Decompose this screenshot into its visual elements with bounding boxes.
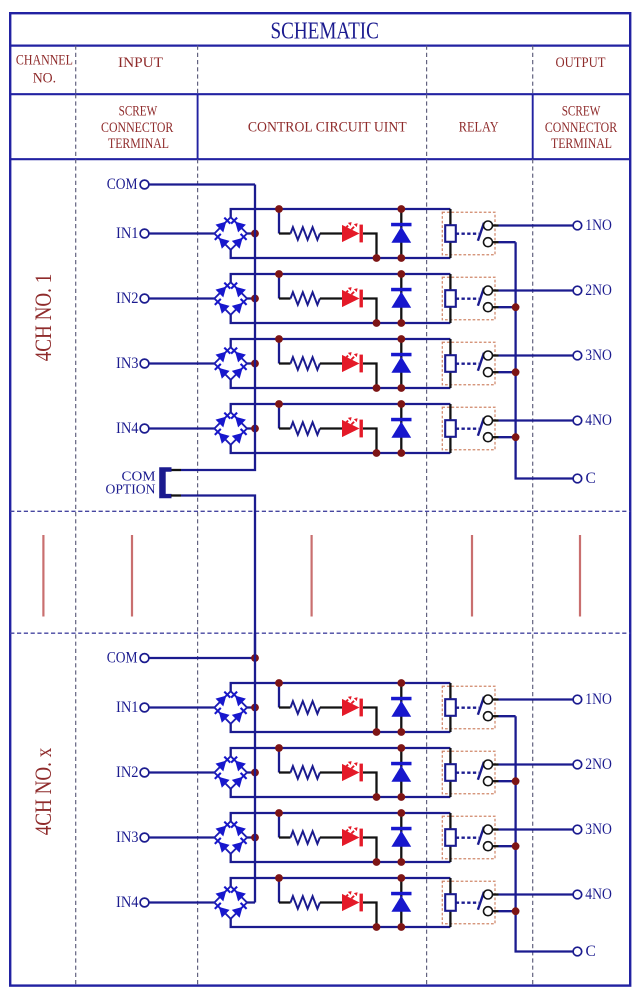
svg-text:3NO: 3NO [585, 821, 612, 838]
input terminal IN3 block 2 [116, 829, 149, 846]
bridge rectifier IN3 block 2 [214, 821, 247, 854]
junction bus/IN2 block 1 [251, 295, 259, 303]
header CHANNEL NO. [16, 53, 73, 87]
svg-text:4NO: 4NO [585, 886, 612, 903]
dashed column lines [76, 46, 533, 986]
continuation marks [43, 535, 580, 617]
svg-text:IN1: IN1 [116, 699, 139, 716]
wire NC contact to C bus IN3 block 2 [493, 845, 499, 847]
bridge rectifier IN2 block 1 [214, 282, 247, 315]
wire resistor branch drop IN3 block 2 [278, 813, 280, 838]
node 3NO (block 1) [573, 347, 612, 364]
wire COM bus (block 1) [181, 185, 255, 471]
input terminal IN1 block 2 [116, 699, 149, 716]
junction LED return/bottom rail IN4 block 1 [373, 449, 381, 457]
wire to resistor IN3 block 1 [279, 362, 291, 364]
wire LED to bottom rail IN3 block 2 [363, 838, 377, 863]
junction bus/IN1 block 2 [251, 704, 259, 712]
wire NO contact to output IN4 block 1 [493, 419, 499, 421]
junction LED return/bottom rail IN2 block 2 [373, 793, 381, 801]
flyback diode IN4 block 1 [391, 418, 411, 438]
wire bridge DC+ riser and top rail IN4 block 1 [231, 404, 451, 412]
flyback diode IN1 block 1 [391, 223, 411, 243]
svg-text:TERMINAL: TERMINAL [551, 136, 612, 152]
wire diode branch IN1 block 1 [400, 209, 402, 258]
junction LED return/bottom rail IN4 block 2 [373, 923, 381, 931]
wire resistor to LED IN4 block 1 [320, 427, 342, 429]
svg-text:2NO: 2NO [585, 282, 612, 299]
junction LED return/bottom rail IN1 block 2 [373, 728, 381, 736]
svg-text:IN4: IN4 [116, 894, 139, 911]
junction top rail/diode IN1 block 2 [397, 679, 405, 687]
resistor IN3 block 2 [291, 831, 320, 844]
junction top rail/diode IN4 block 2 [397, 874, 405, 882]
wire bridge DC- riser and bottom rail IN3 block 1 [231, 380, 451, 388]
dashed block separators [10, 510, 630, 512]
wire diode branch IN1 block 2 [400, 683, 402, 732]
junction top rail/diode IN3 block 2 [397, 809, 405, 817]
resistor IN1 block 2 [291, 701, 320, 714]
junction top rail/diode IN2 block 1 [397, 270, 405, 278]
junction C bus (block 2) y=902 [512, 907, 520, 915]
svg-text:IN2: IN2 [116, 290, 139, 307]
wire resistor to LED IN1 block 2 [320, 706, 342, 708]
wire IN3 block 1 input to bridge [149, 362, 215, 364]
junction top rail/resistor IN1 block 2 [275, 679, 283, 687]
junction C bus (block 1) y=298 [512, 303, 520, 311]
wire diode branch IN2 block 1 [400, 274, 402, 323]
wire bridge AC2 to COM bus IN3 block 1 [247, 362, 255, 364]
relay IN1 block 1 [442, 209, 495, 258]
svg-text:3NO: 3NO [585, 347, 612, 364]
COM OPTION bracket [159, 467, 171, 498]
svg-text:SCHEMATIC: SCHEMATIC [270, 18, 379, 45]
svg-text:4CH NO. 1: 4CH NO. 1 [31, 274, 56, 362]
input terminal IN1 block 1 [116, 225, 149, 242]
wire COM to bus (block 1) [149, 183, 255, 185]
node C (block 1) [573, 470, 596, 487]
wire COM bus (block 2) [254, 633, 256, 903]
wire NC contact to C bus IN4 block 1 [493, 436, 499, 438]
resistor IN1 block 1 [291, 227, 320, 240]
svg-text:IN3: IN3 [116, 829, 139, 846]
wire LED to bottom rail IN1 block 2 [363, 708, 377, 733]
svg-text:CHANNEL: CHANNEL [16, 53, 73, 69]
LED IN2 block 2 [342, 761, 363, 781]
wire C bus (block 2) [516, 716, 574, 951]
wire LED to bottom rail IN4 block 2 [363, 903, 377, 928]
junction C bus (block 1) y=428 [512, 433, 520, 441]
wire bridge DC- riser and bottom rail IN4 block 1 [231, 445, 451, 453]
junction bus/IN1 block 1 [251, 230, 259, 238]
svg-text:1NO: 1NO [585, 217, 612, 234]
wire diode branch IN4 block 1 [400, 404, 402, 453]
LED IN4 block 2 [342, 891, 363, 911]
wire NO contact to output IN3 block 2 [493, 828, 499, 830]
wire bridge AC2 to COM bus IN2 block 2 [247, 771, 255, 773]
svg-text:OPTION: OPTION [106, 483, 156, 498]
wire LED to bottom rail IN4 block 1 [363, 429, 377, 454]
node COM (block 1) [107, 176, 149, 193]
relay IN3 block 1 [442, 339, 495, 388]
node 2NO (block 2) [573, 756, 612, 773]
junction top rail/diode IN4 block 1 [397, 400, 405, 408]
input terminal IN4 block 1 [116, 420, 149, 437]
wire resistor branch drop IN4 block 1 [278, 404, 280, 429]
wire to resistor IN4 block 2 [279, 901, 291, 903]
junction bus/IN3 block 1 [251, 360, 259, 368]
wire resistor to LED IN3 block 2 [320, 836, 342, 838]
flyback diode IN2 block 1 [391, 288, 411, 308]
wire resistor branch drop IN1 block 2 [278, 683, 280, 708]
relay IN1 block 2 [442, 683, 495, 732]
junction top rail/resistor IN2 block 2 [275, 744, 283, 752]
wire bridge DC- riser and bottom rail IN1 block 1 [231, 250, 451, 258]
junction LED return/bottom rail IN2 block 1 [373, 319, 381, 327]
wire resistor to LED IN4 block 2 [320, 901, 342, 903]
junction C bus (block 1) y=364 [512, 368, 520, 376]
wire bridge AC2 to COM bus IN1 block 2 [247, 706, 255, 708]
svg-text:IN2: IN2 [116, 764, 139, 781]
wire to resistor IN1 block 1 [279, 232, 291, 234]
wire bridge AC2 to COM bus IN2 block 1 [247, 297, 255, 299]
svg-text:COM: COM [107, 650, 138, 667]
wire resistor to LED IN2 block 2 [320, 771, 342, 773]
wire IN4 block 1 input to bridge [149, 427, 215, 429]
svg-text:2NO: 2NO [585, 756, 612, 773]
wire NC contact to C bus IN1 block 2 [493, 715, 499, 717]
relay IN2 block 2 [442, 748, 495, 797]
svg-text:4CH NO. x: 4CH NO. x [31, 747, 56, 835]
svg-text:C: C [586, 470, 596, 487]
wire bridge DC+ riser and top rail IN3 block 1 [231, 339, 451, 347]
wire LED to bottom rail IN2 block 2 [363, 773, 377, 798]
wire COM to bus (block 2) [149, 657, 255, 659]
LED IN3 block 1 [342, 352, 363, 372]
junction top rail/resistor IN3 block 2 [275, 809, 283, 817]
input terminal IN2 block 1 [116, 290, 149, 307]
input terminal IN3 block 1 [116, 355, 149, 372]
LED IN1 block 1 [342, 222, 363, 242]
resistor IN4 block 1 [291, 422, 320, 435]
header SCREW CONNECTOR TERMINAL (output) [545, 104, 618, 152]
input terminal IN2 block 2 [116, 764, 149, 781]
junction bottom rail/diode IN1 block 1 [397, 254, 405, 262]
node COM OPTION [106, 469, 157, 497]
wire LED to bottom rail IN1 block 1 [363, 234, 377, 259]
wire bridge DC+ riser and top rail IN2 block 1 [231, 274, 451, 282]
wire to resistor IN2 block 2 [279, 771, 291, 773]
junction LED return/bottom rail IN1 block 1 [373, 254, 381, 262]
wire bridge DC+ riser and top rail IN3 block 2 [231, 813, 451, 821]
wire NO contact to output IN3 block 1 [493, 354, 499, 356]
wire resistor branch drop IN2 block 1 [278, 274, 280, 299]
wire resistor branch drop IN2 block 2 [278, 748, 280, 773]
wire IN1 block 2 input to bridge [149, 706, 215, 708]
resistor IN3 block 1 [291, 357, 320, 370]
wire IN1 block 1 input to bridge [149, 232, 215, 234]
junction bus/IN4 block 1 [251, 425, 259, 433]
wire IN3 block 2 input to bridge [149, 836, 215, 838]
wire resistor branch drop IN4 block 2 [278, 878, 280, 903]
junction LED return/bottom rail IN3 block 2 [373, 858, 381, 866]
relay IN4 block 1 [442, 404, 495, 453]
bridge rectifier IN3 block 1 [214, 347, 247, 380]
junction bus/IN3 block 2 [251, 834, 259, 842]
wire to resistor IN3 block 2 [279, 836, 291, 838]
relay IN3 block 2 [442, 813, 495, 862]
wire resistor branch drop IN1 block 1 [278, 209, 280, 234]
wire NC contact to C bus IN2 block 2 [493, 780, 499, 782]
wire bridge DC+ riser and top rail IN4 block 2 [231, 878, 451, 886]
node 4NO (block 1) [573, 412, 612, 429]
flyback diode IN4 block 2 [391, 892, 411, 912]
junction bottom rail/diode IN2 block 2 [397, 793, 405, 801]
wire COM OPTION bottom arm [171, 494, 181, 496]
wire resistor to LED IN1 block 1 [320, 232, 342, 234]
bridge rectifier IN1 block 2 [214, 691, 247, 724]
resistor IN2 block 2 [291, 766, 320, 779]
junction top rail/resistor IN1 block 1 [275, 205, 283, 213]
bridge rectifier IN4 block 2 [214, 886, 247, 919]
LED IN1 block 2 [342, 696, 363, 716]
svg-text:CONTROL CIRCUIT UINT: CONTROL CIRCUIT UINT [248, 120, 407, 136]
svg-text:SCREW: SCREW [562, 104, 601, 120]
flyback diode IN1 block 2 [391, 697, 411, 717]
flyback diode IN2 block 2 [391, 762, 411, 782]
junction C bus (block 2) y=838 [512, 842, 520, 850]
svg-text:IN4: IN4 [116, 420, 139, 437]
svg-text:RELAY: RELAY [459, 120, 499, 136]
wire bridge DC- riser and bottom rail IN2 block 2 [231, 789, 451, 797]
junction bottom rail/diode IN1 block 2 [397, 728, 405, 736]
wire bridge DC+ riser and top rail IN1 block 1 [231, 209, 451, 217]
wire to resistor IN1 block 2 [279, 706, 291, 708]
bridge rectifier IN2 block 2 [214, 756, 247, 789]
junction bottom rail/diode IN4 block 2 [397, 923, 405, 931]
svg-text:CONNECTOR: CONNECTOR [545, 120, 618, 136]
relay IN2 block 1 [442, 274, 495, 323]
wire NO contact to output IN2 block 2 [493, 763, 499, 765]
wire NC contact to C bus IN1 block 1 [493, 241, 499, 243]
junction top rail/resistor IN4 block 1 [275, 400, 283, 408]
title row separator [10, 44, 630, 46]
svg-text:1NO: 1NO [585, 691, 612, 708]
wire bridge AC2 to COM bus IN1 block 1 [247, 232, 255, 234]
wire diode branch IN4 block 2 [400, 878, 402, 927]
wire bridge DC+ riser and top rail IN2 block 2 [231, 748, 451, 756]
junction bottom rail/diode IN4 block 1 [397, 449, 405, 457]
svg-text:INPUT: INPUT [118, 55, 163, 71]
resistor IN4 block 2 [291, 896, 320, 909]
node C (block 2) [573, 943, 596, 960]
wire IN2 block 2 input to bridge [149, 771, 215, 773]
LED IN4 block 1 [342, 417, 363, 437]
junction C bus (block 2) y=772 [512, 777, 520, 785]
svg-text:OUTPUT: OUTPUT [556, 55, 606, 71]
svg-text:4NO: 4NO [585, 412, 612, 429]
junction top rail/resistor IN4 block 2 [275, 874, 283, 882]
wire NC contact to C bus IN3 block 1 [493, 371, 499, 373]
svg-text:COM: COM [107, 176, 138, 193]
node 2NO (block 1) [573, 282, 612, 299]
wire diode branch IN3 block 1 [400, 339, 402, 388]
junction LED return/bottom rail IN3 block 1 [373, 384, 381, 392]
wire C bus (block 1) [516, 242, 574, 478]
wire NC contact to C bus IN4 block 2 [493, 910, 499, 912]
node COM (block 2) [107, 650, 149, 667]
wire bridge DC- riser and bottom rail IN1 block 2 [231, 724, 451, 732]
relay IN4 block 2 [442, 878, 495, 927]
wire bridge AC2 to COM bus IN4 block 1 [247, 427, 255, 429]
junction bottom rail/diode IN2 block 1 [397, 319, 405, 327]
LED IN2 block 1 [342, 287, 363, 307]
wire bridge DC- riser and bottom rail IN2 block 1 [231, 315, 451, 323]
flyback diode IN3 block 1 [391, 353, 411, 373]
svg-text:SCREW: SCREW [119, 104, 158, 120]
wire resistor to LED IN2 block 1 [320, 297, 342, 299]
node 3NO (block 2) [573, 821, 612, 838]
wire NC contact to C bus IN2 block 1 [493, 306, 499, 308]
node 1NO (block 2) [573, 691, 612, 708]
node 4NO (block 2) [573, 886, 612, 903]
wire bridge DC+ riser and top rail IN1 block 2 [231, 683, 451, 691]
junction bottom rail/diode IN3 block 2 [397, 858, 405, 866]
junction COM/bus (block 2) [251, 654, 259, 662]
header row separator [10, 93, 630, 95]
svg-text:C: C [586, 943, 596, 960]
header bottom separator [10, 158, 630, 160]
wire NO contact to output IN1 block 2 [493, 698, 499, 700]
node 1NO (block 1) [573, 217, 612, 234]
header SCREW CONNECTOR TERMINAL (input) [101, 104, 174, 152]
wire resistor to LED IN3 block 1 [320, 362, 342, 364]
wire IN4 block 2 input to bridge [149, 901, 215, 903]
junction bus/IN2 block 2 [251, 769, 259, 777]
wire NO contact to output IN4 block 2 [493, 893, 499, 895]
wire NO contact to output IN1 block 1 [493, 224, 499, 226]
input terminal IN4 block 2 [116, 894, 149, 911]
wire bridge DC- riser and bottom rail IN4 block 2 [231, 919, 451, 927]
resistor IN2 block 1 [291, 292, 320, 305]
svg-text:IN3: IN3 [116, 355, 139, 372]
wire to resistor IN4 block 1 [279, 427, 291, 429]
wire LED to bottom rail IN3 block 1 [363, 364, 377, 389]
bridge rectifier IN4 block 1 [214, 412, 247, 445]
wire diode branch IN2 block 2 [400, 748, 402, 797]
wire bridge DC- riser and bottom rail IN3 block 2 [231, 854, 451, 862]
junction top rail/resistor IN2 block 1 [275, 270, 283, 278]
LED IN3 block 2 [342, 826, 363, 846]
wire bridge AC2 to COM bus IN4 block 2 [247, 901, 255, 903]
svg-text:TERMINAL: TERMINAL [108, 136, 169, 152]
svg-text:CONNECTOR: CONNECTOR [101, 120, 174, 136]
wire diode branch IN3 block 2 [400, 813, 402, 862]
svg-text:IN1: IN1 [116, 225, 139, 242]
wire COM OPTION top arm stub [171, 469, 181, 471]
junction bottom rail/diode IN3 block 1 [397, 384, 405, 392]
flyback diode IN3 block 2 [391, 827, 411, 847]
svg-text:NO.: NO. [33, 71, 56, 87]
wire LED to bottom rail IN2 block 1 [363, 299, 377, 324]
junction top rail/diode IN1 block 1 [397, 205, 405, 213]
wire resistor branch drop IN3 block 1 [278, 339, 280, 364]
wire IN2 block 1 input to bridge [149, 297, 215, 299]
junction top rail/resistor IN3 block 1 [275, 335, 283, 343]
wire to resistor IN2 block 1 [279, 297, 291, 299]
wire NO contact to output IN2 block 1 [493, 289, 499, 291]
bridge rectifier IN1 block 1 [214, 217, 247, 250]
junction top rail/diode IN3 block 1 [397, 335, 405, 343]
wire bridge AC2 to COM bus IN3 block 2 [247, 836, 255, 838]
junction top rail/diode IN2 block 2 [397, 744, 405, 752]
